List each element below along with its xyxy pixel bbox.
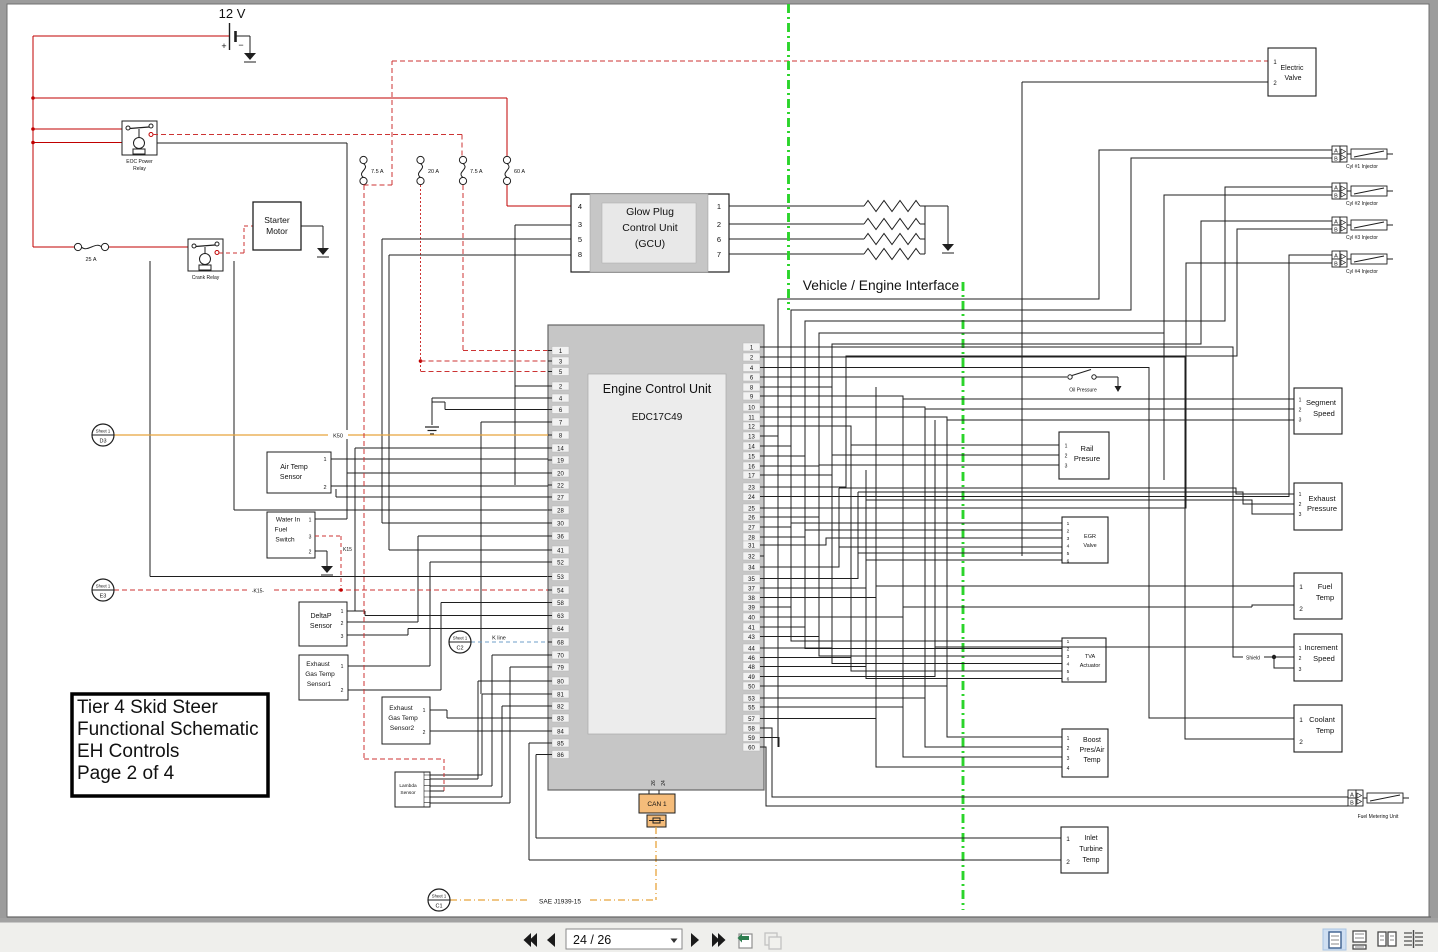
wire ECU-L pin82 to lambda pin5 [430,706,548,797]
svg-text:3: 3 [1067,654,1070,660]
svg-text:28: 28 [748,535,755,541]
svg-text:Sensor: Sensor [310,623,333,630]
svg-text:4: 4 [578,202,582,211]
svg-text:52: 52 [557,560,564,566]
svg-text:3: 3 [1299,667,1302,673]
wire ECU-R pin10 to segment speed pin2 [764,407,1294,409]
wire ECU-L pin14 to bus x355 [355,448,548,611]
svg-text:Sheet 1: Sheet 1 [453,636,468,641]
svg-text:19: 19 [557,458,564,464]
svg-text:85: 85 [557,741,564,747]
svg-text:6: 6 [717,235,721,244]
toolbar page number box 24/26 [566,929,682,949]
wire ECU-L pin79 to lambda pin6 [430,667,548,803]
fuse F1 7.5A [360,156,384,184]
layout icon two page scrolling [1404,930,1423,948]
svg-text:1: 1 [341,609,344,615]
valve Y1 Electric Valve [1268,48,1316,96]
svg-text:3: 3 [1299,418,1302,424]
svg-text:20 A: 20 A [428,169,439,175]
sensor Fuel Temp [1294,573,1342,619]
svg-text:SAE J1939-15: SAE J1939-15 [539,899,581,906]
svg-text:2: 2 [1067,529,1070,535]
svg-text:1: 1 [1299,398,1302,404]
wire ECU-R pin24 to Cyl4 A [764,255,1332,497]
svg-text:E3: E3 [100,594,107,600]
wire ECU-L pin85 to inlet turbine temp pin2 [529,743,548,860]
svg-text:5: 5 [1067,669,1070,675]
svg-text:54: 54 [557,588,564,594]
svg-text:2: 2 [341,688,344,694]
svg-text:Valve: Valve [1285,75,1302,82]
wire ECU-L pin6 to ground stub [432,402,548,410]
svg-text:1: 1 [1299,492,1302,498]
svg-text:1: 1 [1067,639,1070,645]
svg-text:-K15-: -K15- [252,589,265,595]
injector Cyl #2 [1332,183,1393,207]
svg-text:2: 2 [323,485,326,491]
wire ECU-L pin27 row [336,489,548,497]
resistor glow plug R4 [864,249,920,260]
wire ECU-L pin36 to deltaP pin2 [347,536,548,622]
svg-text:50: 50 [748,684,755,690]
svg-text:27: 27 [557,495,564,501]
ground glow plugs [942,244,954,253]
svg-text:2: 2 [1066,859,1070,866]
svg-text:1: 1 [1299,717,1303,724]
svg-text:12: 12 [748,424,755,430]
svg-text:59: 59 [748,736,755,742]
wire ECU-R pin14 to Cyl1 B [764,158,1332,446]
wire GCU output row 3 [729,238,925,240]
sensor Increment Speed [1294,634,1342,681]
wire glow plug common [925,206,948,254]
sensor Segment Speed [1294,388,1342,434]
resistor glow plug R2 [864,219,920,230]
svg-text:5: 5 [578,235,582,244]
wire ECU-L pin81 to lambda pin1 [430,694,548,775]
wire ECU-R pin34 to EGR pin4 [764,547,1062,567]
svg-text:82: 82 [557,704,564,710]
svg-text:24 / 26: 24 / 26 [573,933,611,947]
actuator TVA Actuator [1062,638,1106,683]
wire ECU-L pin20 junction bus x347 [347,472,548,474]
wire ECU-R pin40 to fuel temp pin2 [764,605,1294,617]
svg-text:24: 24 [748,495,755,501]
wire ECU-R pin31 to EGR pin3 [764,538,1062,545]
svg-text:Presure: Presure [1074,454,1100,463]
net K line blue dashed to ECU pin68 [471,633,548,642]
wire ECU-L pin63 to deltaP pin1 [347,611,548,616]
starter motor M1 [253,202,301,250]
svg-text:86: 86 [557,753,564,759]
svg-text:37: 37 [748,586,755,592]
svg-text:Temp: Temp [1082,857,1099,864]
sensor Inlet Turbine Temp [1061,827,1108,873]
sensor S1 Water In Fuel Switch [267,512,315,558]
svg-text:2: 2 [1299,408,1302,414]
svg-text:17: 17 [748,473,755,479]
svg-text:−: − [238,40,243,50]
svg-text:7.5 A: 7.5 A [371,169,384,175]
svg-text:2: 2 [1299,739,1303,746]
svg-text:1: 1 [1299,584,1303,591]
svg-text:3: 3 [309,535,312,541]
wire ECU-L pin2 from GCU bus [515,385,548,387]
wire ECU-R pin11 to segment speed pin3 [764,417,1294,420]
svg-text:58: 58 [748,726,755,732]
wire crank relay dashed to starter motor [219,226,253,253]
svg-text:1: 1 [1067,521,1070,527]
svg-text:Turbine: Turbine [1079,846,1103,853]
resistor glow plug R1 [864,201,920,212]
svg-text:+: + [221,41,226,51]
svg-text:B: B [1334,262,1338,268]
svg-text:15: 15 [748,454,755,460]
net Vehicle/Engine Interface green line right [962,282,965,910]
wire ECU-L pin52 to exhaust gas temp sensor1 pin1 [348,562,548,666]
wire ECU-L pin58 to exhaust gas temp sensor1 pin2 [348,603,548,691]
svg-text:Temp: Temp [1083,757,1100,764]
fuse F2 20A [417,156,439,184]
wire red feeds to EOC relay [33,129,122,143]
svg-text:41: 41 [557,548,564,554]
svg-text:28: 28 [557,508,564,514]
svg-text:7: 7 [717,250,721,259]
wire ECU-L pin22 to air temp sensor pin2 [331,485,548,487]
sensor B5 Lambda Sensor [395,772,430,807]
svg-text:3: 3 [1299,512,1302,518]
svg-text:41: 41 [748,625,755,631]
svg-text:3: 3 [1067,756,1070,762]
wire ECU-R pin50 to boost pin1 [764,686,1062,737]
relay K1 EOC Power Relay [122,121,157,172]
wire ECU-R pin39 to TVA pin1 [764,607,1062,641]
svg-text:Speed: Speed [1313,409,1335,418]
wire ECU-R pin43 to TVA pin3 [764,637,1062,657]
svg-text:10: 10 [748,405,755,411]
svg-text:Sheet 1: Sheet 1 [96,429,111,434]
wire battery negative to ground [236,36,250,53]
wire ECU-R pin41 to TVA pin2 [764,627,1062,649]
svg-text:3: 3 [1065,464,1068,470]
relay K2 Crank Relay [188,239,223,281]
svg-text:5: 5 [1067,551,1070,557]
ECU right pin labels [743,343,764,751]
wire ECU-R pin28 to EGR pin2 [764,530,1062,537]
svg-text:Sheet 1: Sheet 1 [432,894,447,899]
svg-text:63: 63 [557,614,564,620]
wire ECU-R pin27 to EGR pin1 [764,523,1062,527]
svg-text:EH Controls: EH Controls [77,741,179,762]
svg-text:CAN 1: CAN 1 [647,801,667,808]
wire red dashed K15 vertical x364 [364,185,444,791]
svg-text:49: 49 [748,675,755,681]
svg-text:2: 2 [1299,606,1303,613]
sheet ref C2 [449,631,471,653]
resistor glow plug R3 [864,234,920,245]
svg-text:K50: K50 [333,434,343,440]
wire ECU-L pin19 to air temp sensor pin1 [331,458,548,460]
svg-text:26: 26 [651,780,657,786]
toolbar next-page button [691,933,699,947]
svg-text:34: 34 [748,565,755,571]
svg-text:Increment: Increment [1304,643,1338,652]
svg-text:Shield: Shield [1246,656,1260,662]
ground ECU pin4 [425,427,439,434]
svg-text:Starter: Starter [264,215,290,225]
svg-text:1: 1 [1066,836,1070,843]
svg-text:1: 1 [323,457,326,463]
svg-text:55: 55 [748,705,755,711]
svg-text:11: 11 [748,415,755,421]
svg-text:Motor: Motor [266,226,288,236]
sensor Boost Pres/Air Temp [1062,729,1108,777]
wire to inlet turbine pin1 [536,837,1061,839]
svg-text:6: 6 [1067,677,1070,683]
svg-text:Gas Temp: Gas Temp [305,671,335,678]
svg-text:K line: K line [492,636,506,642]
wire exhaust pressure pin3 [866,500,1294,514]
wire ECU-R pin60 to fuel metering B [764,747,1348,806]
svg-text:Pres/Air: Pres/Air [1080,747,1106,754]
svg-text:Control Unit: Control Unit [622,222,678,234]
svg-text:Valve: Valve [1083,543,1096,549]
svg-text:57: 57 [748,717,755,723]
wire ECU-R pin12 to rail pressure pin1 [764,426,1059,445]
svg-text:Page 2 of 4: Page 2 of 4 [77,763,175,784]
svg-text:1: 1 [341,664,344,670]
wire ECU-R pin16 to Cyl2 B [764,195,1332,480]
ground battery [244,53,256,62]
svg-text:Sensor2: Sensor2 [390,725,415,732]
wire ECU-R pin26 to rail pressure pin3 [764,465,1059,517]
ground water in fuel [321,566,333,575]
wire ECU-L pin83 to exhaust gas temp sensor2 pin1 [430,710,548,718]
svg-text:B: B [1350,801,1354,807]
svg-text:2: 2 [1065,454,1068,460]
svg-text:2: 2 [1067,746,1070,752]
svg-text:A: A [1350,793,1354,799]
svg-text:B: B [1334,194,1338,200]
svg-text:Sensor: Sensor [280,474,303,481]
layout icon two pages [1378,932,1396,946]
toolbar next-view button disabled [765,933,781,949]
net K15 red dashed row [114,586,548,595]
svg-text:30: 30 [557,521,564,527]
glow plug control unit U2 GCU [571,194,729,272]
svg-text:Cyl #2 Injector: Cyl #2 Injector [1346,201,1378,207]
engine control unit U1 EDC17C49 [548,325,764,790]
wire ECU-R pin8 to rail pressure pin2 [764,387,1059,455]
svg-text:32: 32 [748,554,755,560]
svg-text:14: 14 [748,444,755,450]
wire ECU-R pin9 to segment speed pin1 [764,396,1294,399]
svg-text:EGR: EGR [1084,534,1096,540]
wire water in fuel pin3 K15 dashed [315,536,352,586]
svg-text:Boost: Boost [1083,737,1101,744]
svg-text:1: 1 [1065,444,1068,450]
svg-text:Exhaust: Exhaust [306,661,330,668]
svg-text:25 A: 25 A [85,257,96,263]
svg-text:81: 81 [557,692,564,698]
svg-text:64: 64 [557,627,564,633]
wire ECU-L pin80 to lambda pin2 [430,681,548,779]
wire ECU-R pin48 to TVA pin6 [764,667,1062,679]
svg-text:D3: D3 [99,439,106,445]
svg-text:46: 46 [748,656,755,662]
sheet ref E3 [92,579,114,601]
svg-text:22: 22 [557,483,564,489]
sheet ref D3 [92,424,114,446]
svg-text:4: 4 [1067,662,1070,668]
svg-text:A: A [1334,186,1338,192]
wire GCU pin3 to bus x515 [515,225,571,485]
svg-text:60: 60 [748,745,755,751]
svg-text:13: 13 [748,434,755,440]
svg-text:B: B [1334,157,1338,163]
svg-text:Water In: Water In [276,517,301,524]
layout icon single page (active) [1323,929,1346,950]
sensor Exhaust Pressure [1294,483,1342,530]
svg-text:Sensor1: Sensor1 [307,681,332,688]
layout icon continuous [1353,931,1366,949]
svg-text:23: 23 [748,485,755,491]
svg-text:K15: K15 [343,547,352,553]
wire GCU output row 2 [729,223,925,225]
wire ECU-R pin53 to boost pin2 [764,698,1062,747]
svg-text:Tier 4 Skid Steer: Tier 4 Skid Steer [77,697,218,718]
injector Cyl #4 [1332,251,1393,275]
svg-text:A: A [1334,254,1338,260]
svg-text:35: 35 [748,577,755,583]
svg-text:B: B [1334,228,1338,234]
svg-text:Temp: Temp [1316,593,1334,602]
wire ECU-R pin25 to Cyl4 B [764,263,1332,508]
wire ECU-L pin30 from GCU pin5 bus [382,522,548,524]
net Vehicle/Engine Interface green line left [787,4,790,310]
svg-text:Coolant: Coolant [1309,715,1336,724]
svg-text:A: A [1334,149,1338,155]
svg-text:31: 31 [748,543,755,549]
wire GCU output row 1 [729,205,925,207]
svg-text:3: 3 [578,220,582,229]
svg-text:8: 8 [578,250,582,259]
wire ECU-R pin46 to TVA pin5 [764,658,1062,672]
label Vehicle / Engine Interface [803,278,960,293]
svg-text:1: 1 [1067,736,1070,742]
svg-text:Sheet 1: Sheet 1 [96,584,111,589]
svg-text:2: 2 [309,550,312,556]
fuse F4 60A [503,156,525,184]
wire x347 bus to water in fuel pin1 [315,518,347,520]
svg-text:Cyl #1 Injector: Cyl #1 Injector [1346,164,1378,170]
wire ECU-R pin13 to Cyl1 A [764,150,1332,436]
svg-text:Sensor: Sensor [400,790,416,796]
wire to inlet turbine pin2 [529,859,1061,861]
toolbar previous-view button [738,934,753,949]
svg-text:Glow Plug: Glow Plug [626,206,674,218]
svg-text:DeltaP: DeltaP [310,613,331,620]
svg-text:C1: C1 [435,904,442,910]
svg-text:7.5 A: 7.5 A [470,169,483,175]
wire ECU-L pin84 to exhaust gas temp sensor2 pin2 [430,730,548,732]
toolbar first-page button [524,933,538,947]
page bottom edge [0,917,1438,923]
svg-text:1: 1 [717,202,721,211]
valve EGR Valve [1062,517,1108,565]
sensor Rail Pressure [1059,432,1109,479]
svg-text:12 V: 12 V [219,6,246,21]
wire ECU-R pin49 to increment speed pin1 [764,647,1294,677]
wire exhaust pressure pin1 [839,488,1294,494]
wire ECU-R pin23 to Cyl3 B [764,229,1332,487]
svg-text:60 A: 60 A [514,169,525,175]
svg-text:Speed: Speed [1313,654,1335,663]
wire ECU-L pin4 to chassis ground [432,398,548,425]
wire crank relay left leg vertical [150,261,548,577]
svg-text:58: 58 [557,601,564,607]
wire ECU-L pin86 to inlet turbine temp pin1 [536,755,548,839]
wire red feed to 60A fuse [33,98,507,156]
svg-text:Lambda: Lambda [399,783,417,789]
wire water in fuel pin2 to ground [315,551,327,566]
svg-text:Fuel: Fuel [275,527,288,534]
svg-text:EDC17C49: EDC17C49 [632,412,683,423]
injector Cyl #1 [1332,146,1393,170]
svg-text:Exhaust: Exhaust [389,705,413,712]
wire electric valve pin2 feed [1022,82,1268,556]
svg-text:Fuel: Fuel [1318,582,1333,591]
svg-text:6: 6 [1067,559,1070,565]
svg-text:80: 80 [557,679,564,685]
svg-text:Functional Schematic: Functional Schematic [77,719,259,740]
svg-text:3: 3 [1067,536,1070,542]
svg-text:1: 1 [1299,646,1302,652]
svg-text:38: 38 [748,596,755,602]
wire vertical bus lines right of ECU [778,387,947,767]
battery 12V [219,6,246,51]
wire red bus to 25A fuse to crank relay [33,246,193,248]
viewer toolbar [0,923,1438,952]
svg-text:Fuel Metering Unit: Fuel Metering Unit [1358,814,1399,820]
svg-text:39: 39 [748,605,755,611]
svg-text:Relay: Relay [133,166,146,172]
svg-text:Temp: Temp [1316,726,1334,735]
wire ECU-R pin38 to fuel temp pin1 [764,586,1294,598]
wire ECU-R pin58 to fuel metering A [764,728,1348,797]
svg-text:53: 53 [557,575,564,581]
sensor B3 Exhaust Gas Temp Sensor1 [299,655,348,700]
wire ECU-L pin7 to bus x481 [481,422,548,694]
svg-text:Gas Temp: Gas Temp [388,715,418,722]
svg-text:40: 40 [748,615,755,621]
fuse F3 7.5A [459,156,482,184]
wire ECU-R pin4 to coolant temp pin1 [764,368,1294,719]
svg-text:1: 1 [309,518,312,524]
wire starter motor to ground [301,226,323,248]
svg-text:Vehicle / Engine Interface: Vehicle / Engine Interface [803,278,960,293]
svg-text:Pressure: Pressure [1307,504,1337,513]
toolbar last-page button [712,933,726,947]
svg-text:2: 2 [1299,502,1302,508]
svg-text:79: 79 [557,665,564,671]
svg-text:48: 48 [748,665,755,671]
svg-text:2: 2 [717,220,721,229]
svg-text:25: 25 [748,506,755,512]
svg-text:Oil Pressure: Oil Pressure [1069,388,1097,394]
svg-text:Cyl #4 Injector: Cyl #4 Injector [1346,269,1378,275]
